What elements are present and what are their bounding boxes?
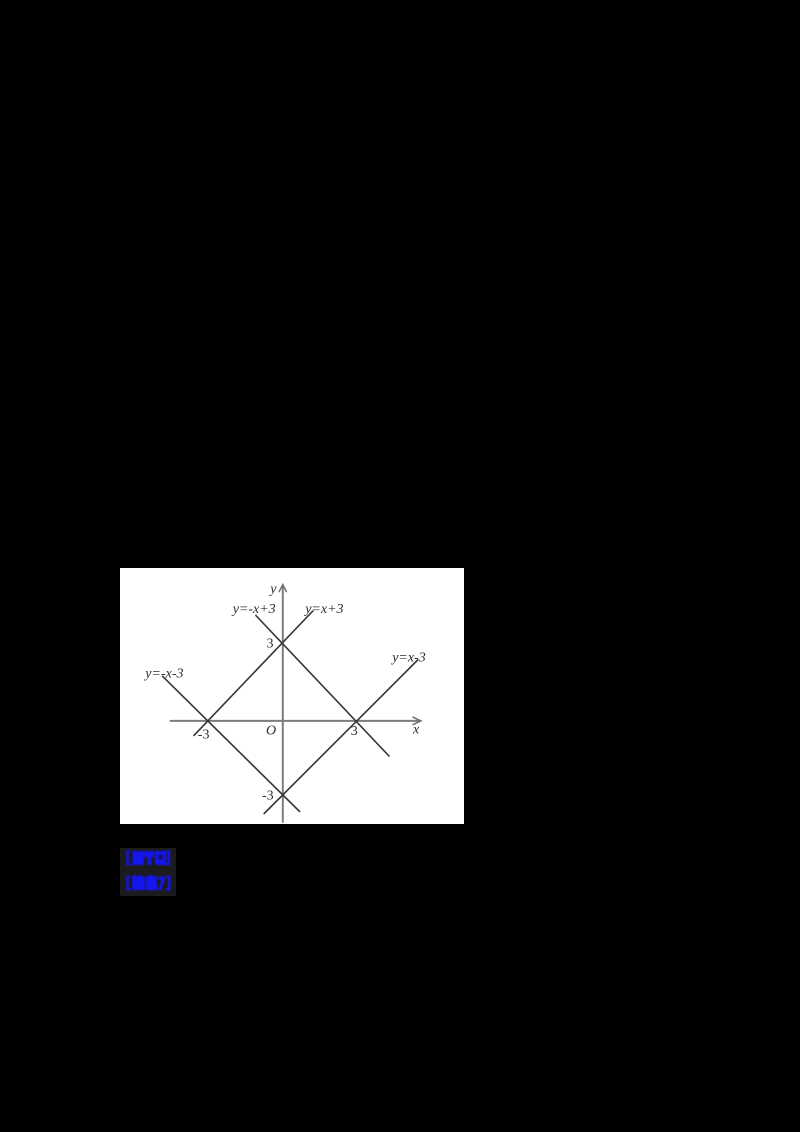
svg-text:O: O [266, 724, 276, 739]
x-axis arrowhead [413, 717, 421, 724]
y-axis arrowhead [279, 585, 286, 592]
svg-text:-3: -3 [198, 727, 210, 742]
blue text line 1 [126, 851, 129, 866]
svg-text:3: 3 [351, 724, 358, 739]
line y=-x-3 [163, 676, 300, 811]
blue text line 2 [126, 876, 129, 891]
line y=x+3 [194, 611, 313, 735]
figure: coordinate plane with four lines [120, 568, 464, 824]
x-axis [171, 720, 420, 722]
svg-text:y: y [268, 582, 277, 597]
svg-text:y=x+3: y=x+3 [303, 602, 343, 617]
answer box with blue chinese text [120, 848, 176, 896]
svg-text:-3: -3 [262, 789, 274, 804]
svg-text:y=x-3: y=x-3 [390, 651, 426, 666]
svg-text:x: x [412, 723, 420, 738]
svg-text:3: 3 [267, 637, 274, 652]
svg-text:y=-x+3: y=-x+3 [231, 602, 276, 617]
svg-text:y=-x-3: y=-x-3 [143, 667, 183, 682]
y-axis [282, 586, 284, 822]
line y=x-3 [264, 660, 418, 814]
line y=-x+3 [256, 616, 389, 757]
